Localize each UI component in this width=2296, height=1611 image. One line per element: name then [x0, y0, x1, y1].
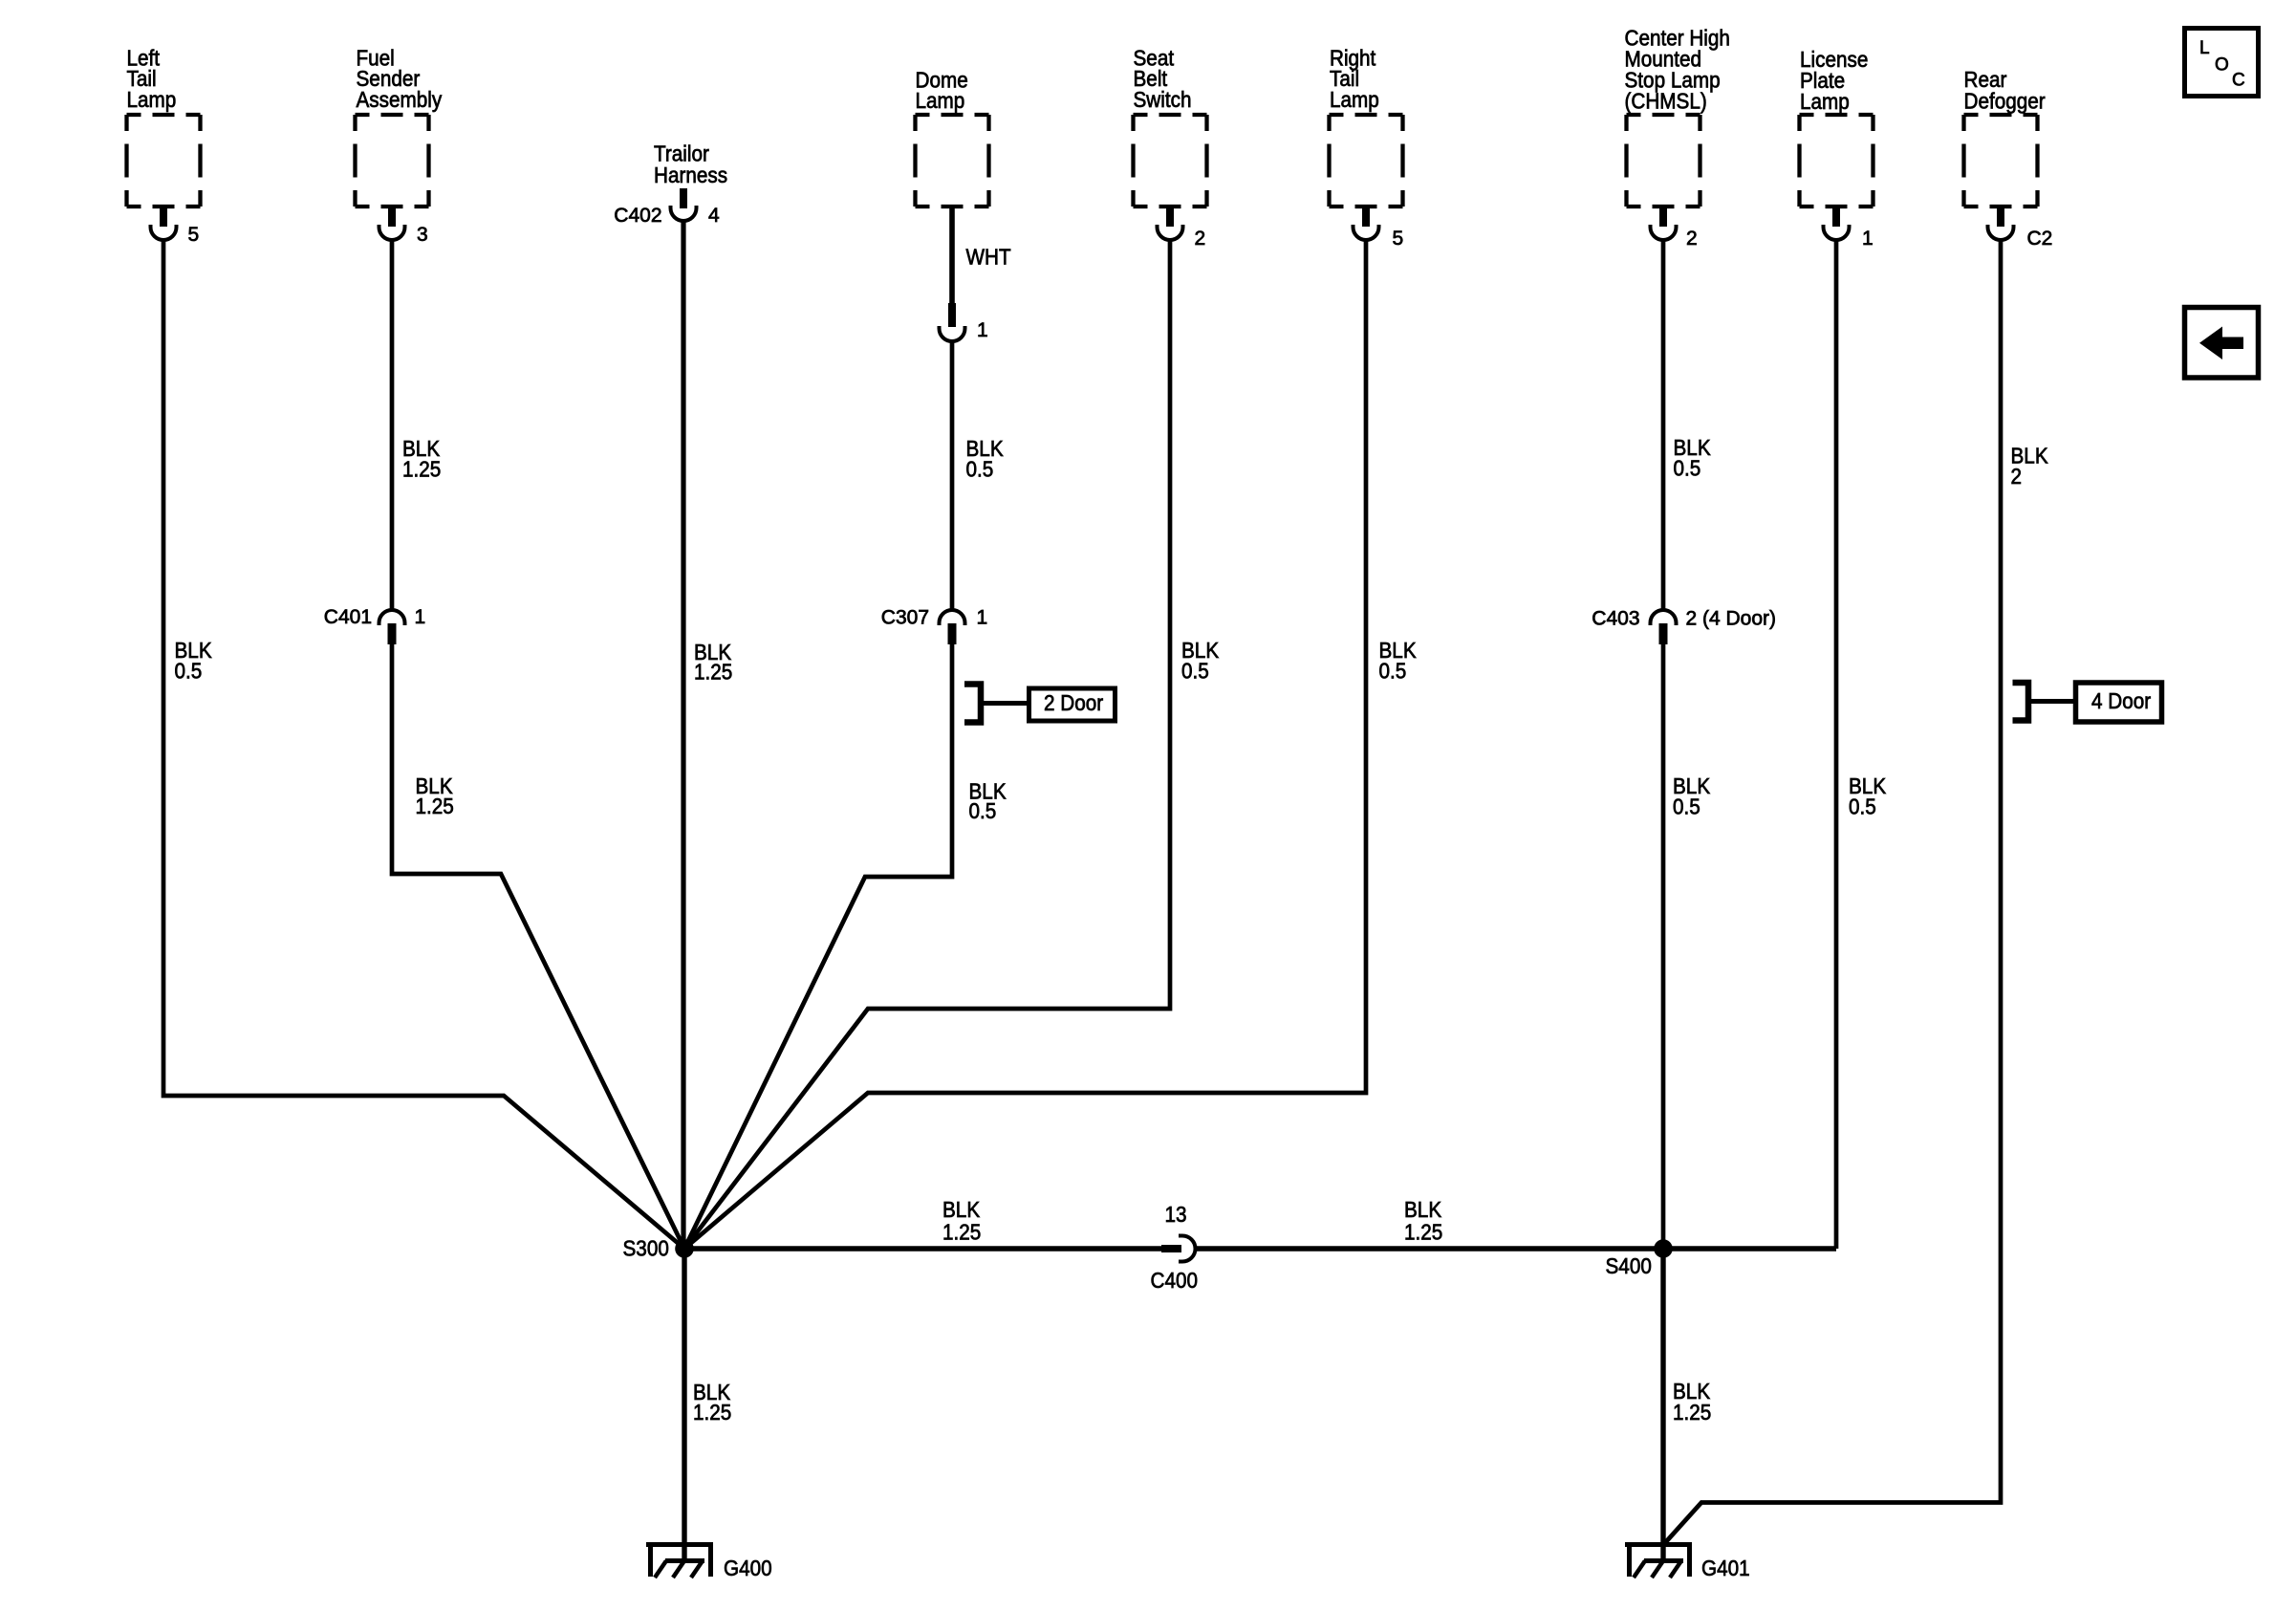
svg-text:Switch: Switch	[1134, 87, 1192, 112]
svg-text:0.5: 0.5	[966, 456, 994, 481]
connector C400 inline on trunk	[1161, 1236, 1196, 1262]
svg-text:2: 2	[2011, 464, 2023, 489]
svg-text:4: 4	[708, 205, 720, 227]
svg-text:0.5: 0.5	[1674, 455, 1701, 480]
wire S400 down to G401	[1660, 1249, 1665, 1558]
svg-text:C401: C401	[324, 606, 372, 628]
wire rear defogger down and left to G401	[1662, 241, 2001, 1546]
connector pin 2 seat belt switch	[1158, 207, 1183, 240]
svg-text:1.25: 1.25	[942, 1219, 981, 1244]
svg-text:G401: G401	[1701, 1556, 1750, 1580]
svg-text:C402: C402	[614, 205, 661, 227]
wire fuel sender lower segment to S300	[392, 644, 684, 1249]
wire fuel sender upper segment	[390, 240, 395, 611]
box CHMSL	[1627, 115, 1700, 207]
svg-text:S400: S400	[1606, 1253, 1652, 1278]
svg-text:1.25: 1.25	[694, 659, 732, 684]
svg-text:1: 1	[415, 606, 426, 628]
svg-text:1.25: 1.25	[1673, 1400, 1711, 1425]
box dome lamp	[916, 115, 989, 207]
CONNECTOR SYMBOLS	[151, 188, 2014, 1262]
svg-text:C2: C2	[2027, 228, 2053, 250]
svg-text:1: 1	[1862, 228, 1874, 250]
box license plate lamp	[1800, 115, 1874, 207]
svg-text:1.25: 1.25	[402, 456, 441, 481]
box seat belt switch	[1134, 115, 1207, 207]
box right tail lamp	[1330, 115, 1403, 207]
svg-text:L: L	[2199, 38, 2210, 58]
connector C307 dome lamp inline	[940, 610, 965, 644]
wire trunk S300 to C400	[684, 1246, 1161, 1251]
svg-text:C307: C307	[881, 607, 929, 629]
svg-text:4 Door: 4 Door	[2091, 688, 2151, 713]
svg-text:5: 5	[188, 224, 200, 246]
svg-text:2 (4 Door): 2 (4 Door)	[1686, 608, 1777, 630]
svg-text:0.5: 0.5	[1181, 658, 1209, 683]
svg-text:3: 3	[417, 224, 428, 246]
svg-text:0.5: 0.5	[969, 798, 997, 823]
wire license plate lamp down to trunk corner	[1834, 241, 1839, 1249]
svg-text:Lamp: Lamp	[1800, 89, 1850, 114]
svg-text:Assembly: Assembly	[357, 87, 443, 112]
connector pin 5 left tail lamp	[151, 207, 177, 240]
svg-text:1: 1	[977, 607, 988, 629]
svg-text:1: 1	[977, 319, 988, 341]
4 Door option tag	[2013, 683, 2162, 722]
connector pin C2 rear defogger	[1988, 207, 2014, 240]
connector pin 5 right tail lamp	[1354, 207, 1379, 240]
svg-text:1.25: 1.25	[1404, 1219, 1442, 1244]
wire CHMSL lower segment to S400	[1661, 644, 1666, 1249]
svg-text:5: 5	[1393, 228, 1404, 250]
svg-text:S300: S300	[623, 1235, 669, 1260]
connector C402 trailor harness	[671, 188, 697, 221]
svg-text:1.25: 1.25	[416, 794, 454, 818]
svg-text:Harness: Harness	[654, 163, 727, 187]
box rear defogger	[1964, 115, 2038, 207]
wire CHMSL upper segment	[1661, 241, 1666, 610]
svg-text:BLK: BLK	[942, 1197, 981, 1222]
svg-text:0.5: 0.5	[1379, 658, 1407, 683]
svg-text:C403: C403	[1592, 608, 1639, 630]
svg-text:0.5: 0.5	[175, 658, 203, 683]
ground G400	[646, 1545, 713, 1578]
wire dome lamp lower segment to S300	[684, 644, 952, 1249]
svg-text:BLK: BLK	[1404, 1197, 1442, 1222]
LOC box top right	[2185, 29, 2259, 97]
svg-text:2: 2	[1686, 228, 1698, 250]
connector pin 1 dome lamp	[940, 303, 965, 341]
svg-text:13: 13	[1165, 1202, 1187, 1227]
svg-text:C400: C400	[1151, 1268, 1198, 1293]
svg-text:(CHMSL): (CHMSL)	[1625, 88, 1707, 113]
box left tail lamp	[127, 115, 201, 207]
svg-text:2: 2	[1195, 228, 1206, 250]
connector pin 3 fuel sender	[379, 207, 405, 240]
wire left tail lamp to S300	[163, 240, 684, 1250]
connector C403 CHMSL inline	[1651, 610, 1677, 644]
wire trailor harness trunk down	[681, 221, 685, 1249]
svg-text:WHT: WHT	[966, 244, 1011, 269]
wire trunk C400 to S400 to license corner	[1196, 1246, 1836, 1251]
svg-text:Defogger: Defogger	[1964, 88, 2046, 113]
wire seat belt switch to S300	[684, 241, 1170, 1249]
svg-text:Lamp: Lamp	[916, 88, 965, 113]
connector C401 fuel sender inline	[379, 610, 405, 644]
svg-text:1.25: 1.25	[693, 1400, 731, 1425]
component boxes dashed	[127, 115, 2038, 207]
svg-text:0.5: 0.5	[1849, 794, 1876, 818]
svg-text:Lamp: Lamp	[127, 87, 177, 112]
arrow box right	[2185, 308, 2259, 379]
svg-text:O: O	[2215, 55, 2229, 76]
ground G401	[1625, 1545, 1692, 1578]
wire dome lamp middle segment	[950, 341, 955, 610]
junction S300	[675, 1239, 694, 1258]
connector pin 1 license plate lamp	[1824, 207, 1850, 240]
wire dome lamp WHT segment	[949, 207, 955, 303]
wire right tail lamp to S300	[684, 241, 1366, 1249]
connector pin 2 CHMSL	[1651, 207, 1677, 240]
svg-text:2 Door: 2 Door	[1044, 690, 1103, 715]
box fuel sender assembly	[356, 115, 429, 207]
svg-text:G400: G400	[724, 1556, 772, 1580]
2 Door option tag	[964, 685, 1116, 723]
svg-text:C: C	[2232, 71, 2245, 91]
svg-text:Lamp: Lamp	[1330, 87, 1379, 112]
svg-text:0.5: 0.5	[1673, 794, 1700, 818]
wire S300 down to G400	[682, 1249, 686, 1558]
junction S400	[1654, 1239, 1673, 1258]
